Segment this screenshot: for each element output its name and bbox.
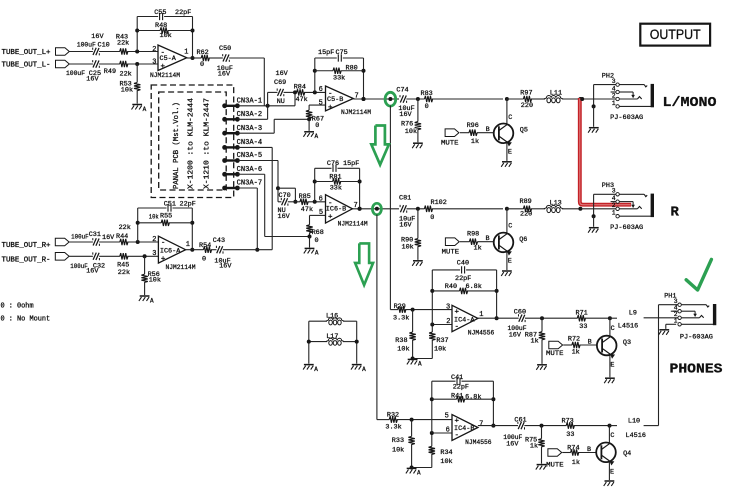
svg-text:5: 5 — [319, 100, 323, 108]
svg-text:2: 2 — [612, 202, 616, 209]
svg-text:C76: C76 — [327, 160, 339, 168]
svg-text:1k: 1k — [572, 349, 580, 357]
svg-text:1k: 1k — [530, 443, 538, 451]
svg-text:L13: L13 — [550, 200, 562, 208]
svg-text:C5-B: C5-B — [327, 96, 343, 104]
svg-text:NJM2114M: NJM2114M — [341, 109, 371, 117]
svg-text:E: E — [610, 469, 614, 477]
svg-text:1k: 1k — [474, 245, 482, 253]
svg-text:100uF: 100uF — [77, 42, 96, 49]
svg-text:3: 3 — [446, 304, 450, 312]
svg-text:1k: 1k — [572, 459, 580, 467]
svg-text:3: 3 — [152, 250, 156, 258]
svg-text:4: 4 — [612, 195, 616, 202]
svg-text:R84: R84 — [294, 83, 306, 91]
svg-text:R44: R44 — [116, 233, 128, 241]
svg-text:220: 220 — [520, 211, 532, 219]
svg-text:C69: C69 — [274, 79, 286, 87]
svg-text:MUTE: MUTE — [546, 461, 564, 469]
svg-text:A: A — [315, 133, 319, 140]
svg-text:2: 2 — [612, 92, 616, 99]
svg-text:10k: 10k — [434, 345, 446, 353]
svg-text:E: E — [508, 149, 512, 157]
svg-text:L10: L10 — [628, 418, 640, 426]
svg-text:MUTE: MUTE — [441, 140, 459, 148]
svg-text:0 : 0ohm: 0 : 0ohm — [1, 302, 34, 310]
svg-text:B: B — [486, 235, 490, 243]
svg-text:22pF: 22pF — [455, 275, 471, 283]
svg-text:C61: C61 — [514, 416, 526, 424]
svg-text:R41: R41 — [451, 392, 463, 400]
svg-text:3.3k: 3.3k — [393, 314, 409, 322]
svg-text:22k: 22k — [120, 71, 132, 79]
svg-text:R48: R48 — [155, 22, 167, 30]
svg-text:R55: R55 — [160, 213, 172, 221]
svg-text:NJM2114M: NJM2114M — [150, 72, 180, 80]
svg-text:R80: R80 — [346, 64, 358, 72]
svg-text:1: 1 — [612, 100, 616, 107]
svg-text:TUBE_OUT_R+: TUBE_OUT_R+ — [2, 242, 51, 250]
svg-text:OUTPUT: OUTPUT — [650, 27, 701, 43]
svg-text:R83: R83 — [421, 90, 433, 98]
svg-text:47k: 47k — [301, 206, 313, 214]
svg-text:16V: 16V — [91, 33, 104, 41]
svg-text:TUBE_OUT_R-: TUBE_OUT_R- — [2, 257, 51, 265]
svg-text:3: 3 — [152, 58, 156, 66]
svg-text:R97: R97 — [520, 89, 532, 97]
svg-text:22k: 22k — [118, 269, 130, 277]
svg-text:CN3A-1: CN3A-1 — [237, 97, 263, 105]
svg-text:C: C — [508, 114, 512, 122]
svg-text:R49: R49 — [104, 68, 116, 76]
svg-text:IC4-A: IC4-A — [454, 317, 475, 325]
svg-text:R: R — [671, 204, 680, 220]
svg-text:CN3A-4: CN3A-4 — [237, 139, 263, 147]
svg-text:0: 0 — [425, 103, 429, 111]
svg-text:R38: R38 — [395, 337, 407, 345]
svg-text:220: 220 — [521, 102, 533, 110]
svg-text:R34: R34 — [440, 449, 452, 457]
svg-text:PJ-603AG: PJ-603AG — [680, 334, 713, 342]
svg-text:Q3: Q3 — [623, 339, 631, 347]
svg-text:2: 2 — [446, 318, 450, 326]
svg-text:R68: R68 — [312, 229, 324, 237]
svg-text:10k: 10k — [397, 345, 409, 353]
svg-text:10k: 10k — [149, 213, 159, 220]
svg-text:C: C — [610, 432, 614, 440]
svg-text:22k: 22k — [119, 224, 131, 232]
svg-text:R29: R29 — [394, 303, 406, 311]
svg-text:0: 0 — [315, 237, 319, 245]
svg-text:A: A — [418, 361, 422, 368]
svg-text:R33: R33 — [392, 437, 404, 445]
svg-text:R54: R54 — [199, 242, 211, 250]
svg-text:NJM4556: NJM4556 — [465, 439, 492, 447]
svg-text:A: A — [417, 470, 421, 477]
svg-text:0: 0 — [315, 122, 319, 130]
svg-text:6.8k: 6.8k — [466, 283, 482, 291]
svg-text:X-1200 :to KLM-2444: X-1200 :to KLM-2444 — [188, 98, 196, 189]
svg-text:R71: R71 — [576, 309, 588, 317]
svg-text:10k: 10k — [160, 32, 172, 40]
svg-text:TUBE_OUT_L-: TUBE_OUT_L- — [2, 62, 51, 70]
svg-text:5: 5 — [445, 413, 449, 421]
svg-text:1: 1 — [674, 318, 678, 325]
svg-text:0: 0 — [430, 214, 434, 222]
svg-text:PANAL PCB (Mst.Vol.): PANAL PCB (Mst.Vol.) — [173, 102, 181, 189]
svg-text:C55: C55 — [154, 9, 166, 17]
svg-text:+: + — [328, 214, 333, 222]
svg-text:CN3A-2: CN3A-2 — [237, 111, 263, 119]
svg-text:Q4: Q4 — [623, 450, 631, 458]
svg-text:16V: 16V — [276, 70, 289, 78]
svg-text:6.8k: 6.8k — [465, 394, 481, 402]
svg-text:C40: C40 — [457, 259, 469, 267]
svg-text:15pF: 15pF — [343, 160, 359, 168]
svg-text:PJ-603AG: PJ-603AG — [610, 224, 643, 232]
svg-text:E: E — [508, 258, 512, 266]
svg-text:L9: L9 — [629, 309, 637, 317]
svg-text:16V: 16V — [102, 234, 115, 242]
svg-text:R85: R85 — [299, 193, 311, 201]
svg-text:22pF: 22pF — [175, 9, 191, 17]
svg-text:C74: C74 — [396, 87, 408, 95]
svg-text:CN3A-5: CN3A-5 — [237, 152, 263, 160]
svg-text:10k: 10k — [402, 244, 414, 252]
svg-text:NJM4556: NJM4556 — [468, 330, 495, 338]
svg-text:C: C — [508, 223, 512, 231]
svg-text:A: A — [143, 106, 147, 113]
svg-text:1: 1 — [186, 241, 190, 249]
svg-text:C41: C41 — [451, 374, 463, 382]
svg-text:B: B — [588, 339, 592, 347]
svg-text:Q5: Q5 — [520, 127, 528, 135]
svg-text:100uF: 100uF — [71, 234, 89, 241]
svg-text:R74: R74 — [567, 444, 579, 452]
svg-text:CN3A-6: CN3A-6 — [237, 166, 263, 174]
svg-text:22pF: 22pF — [453, 383, 469, 391]
svg-text:33: 33 — [566, 431, 574, 439]
svg-text:16V: 16V — [278, 213, 291, 221]
svg-text:X-1210 :to KLM-2447: X-1210 :to KLM-2447 — [204, 98, 212, 189]
svg-text:R73: R73 — [562, 418, 574, 426]
svg-text:A: A — [315, 250, 319, 257]
svg-text:-: - — [455, 432, 460, 440]
svg-text:1k: 1k — [531, 338, 539, 346]
svg-text:C5-A: C5-A — [160, 55, 177, 63]
svg-text:C60: C60 — [514, 308, 526, 316]
svg-text:22k: 22k — [117, 39, 129, 47]
svg-text:6: 6 — [446, 427, 450, 435]
svg-text:22pF: 22pF — [180, 200, 196, 208]
svg-text:L4516: L4516 — [626, 432, 646, 440]
svg-text:PH1: PH1 — [664, 292, 676, 300]
svg-text:L4516: L4516 — [618, 323, 638, 331]
svg-text:-: - — [455, 323, 460, 331]
svg-text:C70: C70 — [279, 192, 291, 200]
svg-text:15pF: 15pF — [318, 49, 334, 57]
svg-text:TUBE_OUT_L+: TUBE_OUT_L+ — [2, 49, 51, 57]
svg-text:10k: 10k — [149, 277, 161, 285]
svg-text:PJ-603AG: PJ-603AG — [610, 114, 643, 122]
svg-text:47k: 47k — [296, 96, 308, 104]
svg-text:6: 6 — [319, 195, 323, 203]
svg-text:R32: R32 — [387, 412, 399, 420]
svg-text:R89: R89 — [520, 198, 532, 206]
svg-text:L16: L16 — [326, 313, 338, 321]
svg-text:NU: NU — [277, 98, 285, 106]
svg-text:1k: 1k — [471, 138, 479, 146]
svg-text:7: 7 — [479, 420, 483, 428]
svg-text:B: B — [486, 126, 490, 134]
svg-text:Q6: Q6 — [519, 236, 527, 244]
svg-text:IC4-B: IC4-B — [454, 425, 474, 433]
svg-text:16V: 16V — [399, 111, 412, 119]
svg-text:1: 1 — [184, 49, 188, 57]
svg-text:0: 0 — [202, 255, 206, 263]
svg-text:A: A — [150, 297, 154, 304]
svg-text:C51: C51 — [164, 200, 176, 208]
svg-text:33k: 33k — [333, 75, 345, 83]
svg-text:4: 4 — [612, 85, 616, 92]
svg-text:3.3k: 3.3k — [385, 423, 401, 431]
svg-text:R72: R72 — [568, 336, 580, 344]
svg-text:CN3A-3: CN3A-3 — [237, 125, 263, 133]
svg-text:R81: R81 — [329, 173, 341, 181]
svg-text:+: + — [161, 63, 166, 71]
svg-text:MUTE: MUTE — [442, 248, 460, 256]
svg-text:+: + — [328, 104, 333, 112]
svg-text:0 : No Mount: 0 : No Mount — [1, 316, 51, 324]
svg-text:0: 0 — [200, 61, 204, 69]
svg-text:16V: 16V — [86, 267, 99, 275]
svg-text:100uF: 100uF — [70, 263, 88, 270]
svg-text:R37: R37 — [436, 337, 448, 345]
svg-text:C75: C75 — [336, 49, 348, 57]
svg-text:7: 7 — [354, 202, 358, 210]
svg-text:2: 2 — [152, 236, 156, 244]
svg-text:33k: 33k — [330, 184, 342, 192]
svg-text:10k: 10k — [440, 458, 452, 466]
svg-text:A: A — [362, 366, 366, 373]
svg-text:33: 33 — [579, 323, 587, 331]
svg-text:16V: 16V — [218, 71, 231, 79]
svg-text:10k: 10k — [392, 447, 404, 455]
svg-text:C43: C43 — [213, 237, 225, 245]
svg-text:IC6-A: IC6-A — [160, 247, 181, 255]
svg-text:R102: R102 — [431, 199, 447, 207]
svg-text:L11: L11 — [550, 90, 562, 98]
svg-text:PH3: PH3 — [602, 182, 614, 190]
svg-text:MUTE: MUTE — [546, 350, 564, 358]
svg-text:E: E — [610, 362, 614, 370]
svg-text:16V: 16V — [86, 76, 99, 84]
svg-text:C10: C10 — [98, 42, 110, 50]
svg-text:PHONES: PHONES — [670, 362, 723, 378]
svg-text:NJM2114M: NJM2114M — [166, 264, 196, 272]
svg-text:10k: 10k — [121, 86, 133, 94]
svg-text:16V: 16V — [506, 441, 519, 449]
svg-text:+: + — [161, 255, 166, 263]
svg-text:R40: R40 — [445, 283, 457, 291]
svg-text:+: + — [455, 308, 460, 316]
svg-text:R62: R62 — [197, 49, 209, 57]
svg-text:16V: 16V — [399, 222, 412, 230]
svg-text:CN3A-7: CN3A-7 — [237, 180, 263, 188]
svg-text:C50: C50 — [219, 45, 231, 53]
svg-text:NJM2114M: NJM2114M — [338, 221, 368, 229]
svg-text:C81: C81 — [399, 195, 411, 203]
svg-text:6: 6 — [319, 86, 323, 94]
svg-text:C31: C31 — [89, 231, 101, 239]
svg-text:PH2: PH2 — [602, 73, 614, 81]
svg-text:10k: 10k — [405, 128, 417, 136]
svg-text:2: 2 — [152, 46, 156, 54]
svg-text:IC6-B: IC6-B — [326, 206, 346, 214]
svg-text:B: B — [587, 446, 591, 454]
svg-text:R98: R98 — [467, 231, 479, 239]
svg-text:L/MONO: L/MONO — [663, 95, 717, 111]
svg-text:A: A — [314, 366, 318, 373]
svg-text:L17: L17 — [326, 333, 338, 341]
svg-text:1: 1 — [612, 210, 616, 217]
svg-text:16V: 16V — [219, 263, 232, 271]
svg-text:16V: 16V — [509, 331, 522, 339]
svg-text:R96: R96 — [467, 122, 479, 130]
svg-text:C: C — [611, 325, 615, 333]
svg-text:100uF: 100uF — [66, 70, 85, 77]
